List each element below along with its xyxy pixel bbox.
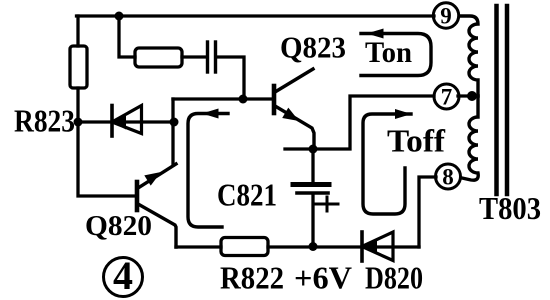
capacitor C821 — [293, 149, 338, 246]
wire below R823 down and to Q820 base — [78, 88, 135, 196]
circled 4 figure number — [104, 253, 143, 298]
wire R823 node to diode — [78, 120, 173, 123]
transistor Q820 — [137, 164, 176, 247]
resistor (horizontal, top) — [135, 48, 182, 67]
svg-text:R823: R823 — [14, 103, 75, 139]
wire capacitor to base node — [216, 57, 244, 99]
svg-text:7: 7 — [441, 85, 453, 110]
node junction diode/vertical — [170, 118, 179, 127]
svg-text:+6V: +6V — [294, 260, 352, 296]
wire top horizontal — [77, 14, 435, 17]
transistor Q823 — [274, 69, 314, 149]
node junction winding tap — [467, 91, 477, 101]
pin 9 terminal — [433, 3, 458, 29]
node junction top branch — [115, 12, 124, 21]
current loop arrow left (around Q820/C821) — [188, 109, 228, 228]
diode D820 (pointing left) — [362, 232, 393, 261]
svg-text:Ton: Ton — [365, 36, 412, 69]
wire R822 to node — [268, 245, 419, 248]
transformer core line 1 — [494, 6, 499, 194]
transformer T803 winding lower — [462, 96, 478, 180]
wire Q823 base horizontal — [173, 97, 272, 100]
svg-text:Q823: Q823 — [280, 30, 346, 65]
wire branch down to coupling resistor — [119, 16, 135, 57]
pin 7 terminal — [434, 84, 459, 110]
transformer core line 2 — [505, 6, 510, 194]
svg-text:4: 4 — [113, 253, 133, 298]
node junction emitter/C821 — [309, 145, 318, 154]
wire pin7 to winding tap — [458, 94, 478, 97]
wire D820 up to pin 8 — [419, 177, 436, 247]
transformer T803 winding upper — [460, 16, 479, 96]
wire resistor to capacitor — [182, 55, 205, 58]
wire vertical net (Q823 base line down to Q820 collector) — [171, 99, 174, 164]
diode (left of Q823 base net, pointing left) — [112, 106, 142, 137]
svg-text:8: 8 — [442, 165, 454, 190]
wire emitter crossing to pin 7 — [285, 96, 434, 149]
node junction cap branch / base wire — [239, 95, 248, 104]
svg-text:Toff: Toff — [387, 123, 445, 159]
svg-text:9: 9 — [440, 4, 452, 29]
node junction R823/diode — [74, 118, 83, 127]
node junction bottom — [309, 242, 318, 251]
svg-text:D820: D820 — [365, 260, 423, 296]
resistor R822 — [221, 238, 268, 256]
pin 8 terminal — [436, 164, 461, 190]
capacitor (coupling, vertical plates) — [208, 42, 216, 72]
svg-text:T803: T803 — [479, 190, 541, 226]
resistor R823 (vertical body) — [70, 46, 87, 88]
wire top-left drop to R823 — [76, 16, 79, 46]
wire Q820 emitter to R822 — [176, 245, 221, 248]
svg-text:C821: C821 — [217, 177, 277, 213]
current loop arrow Toff — [363, 109, 412, 214]
svg-text:Q820: Q820 — [85, 210, 152, 242]
svg-text:R822: R822 — [220, 260, 284, 296]
current loop arrow Ton — [361, 29, 431, 76]
